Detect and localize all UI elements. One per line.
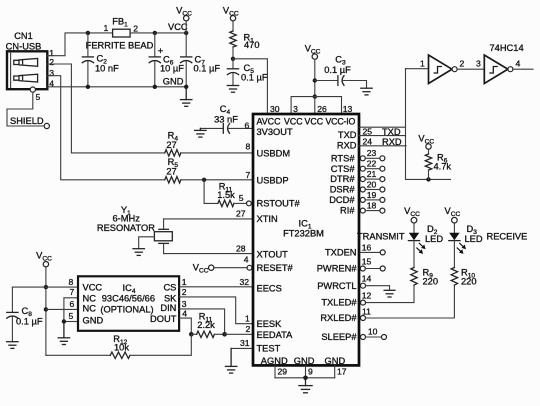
svg-text:5: 5: [239, 193, 244, 203]
svg-text:XTIN: XTIN: [257, 214, 278, 224]
svg-text:5: 5: [36, 92, 41, 102]
resistor R10 220: [451, 268, 476, 287]
svg-text:GND: GND: [294, 356, 315, 366]
bubble RESET# pin 4: [247, 265, 252, 270]
svg-text:RXD: RXD: [337, 141, 357, 151]
svg-text:7: 7: [246, 170, 251, 180]
svg-text:0.1 µF: 0.1 µF: [241, 73, 268, 83]
ground symbol below IC4 GND: [58, 322, 69, 345]
svg-text:10 µF: 10 µF: [160, 64, 184, 74]
ground symbol at TEST: [225, 348, 236, 373]
svg-text:21: 21: [367, 169, 377, 179]
eeprom IC4 93C46/56/66: [78, 276, 179, 331]
ground symbol below C8: [7, 342, 18, 349]
svg-text:4: 4: [182, 309, 187, 319]
wire to EEDATA pin 2: [225, 333, 253, 335]
svg-text:28: 28: [236, 243, 246, 253]
svg-text:FT232BM: FT232BM: [283, 229, 324, 239]
svg-text:11: 11: [362, 307, 371, 317]
svg-text:6: 6: [245, 121, 250, 131]
wire FB1 pin 2 to VCC node: [130, 32, 186, 34]
junction USBDP to R11: [202, 178, 206, 182]
capacitor C7 0.1 uF: [181, 33, 221, 87]
capacitor C5 0.1 uF: [227, 59, 267, 86]
svg-text:2: 2: [49, 57, 54, 67]
junction R1/C5/AVCC: [231, 57, 235, 61]
svg-text:10 nF: 10 nF: [95, 64, 119, 74]
svg-text:22: 22: [367, 159, 377, 169]
pin TXLED# 12: [361, 285, 415, 305]
junction GND rail at C2: [86, 85, 90, 89]
op-amp IC1 FT232BM main box: [253, 114, 359, 366]
wire GND pin 9 stub: [305, 365, 307, 377]
svg-text:NC: NC: [83, 304, 97, 314]
wire VCC to IC4 pin 6 NC: [46, 308, 78, 310]
svg-text:1: 1: [182, 277, 187, 287]
wire IC4 SK pin 2 to EESK pin 1: [179, 297, 253, 324]
svg-text:RSTOUT#: RSTOUT#: [257, 199, 301, 209]
svg-text:7: 7: [70, 287, 75, 297]
junction VCC to C3: [313, 78, 317, 82]
svg-text:SLEEP#: SLEEP#: [321, 332, 357, 342]
wire resonator to XTOUT pin 28: [164, 253, 253, 255]
junction VCC to IC4 pin 8: [44, 285, 48, 289]
wire GND rail from CN1 pin 4: [47, 86, 186, 88]
svg-text:VCC: VCC: [305, 117, 324, 127]
svg-text:1: 1: [104, 23, 109, 33]
svg-text:220: 220: [423, 276, 439, 286]
svg-text:RXLED#: RXLED#: [320, 313, 357, 323]
ground symbol below IC1: [299, 378, 312, 393]
svg-text:CS: CS: [163, 283, 176, 293]
svg-text:SK: SK: [164, 293, 177, 303]
svg-text:(OPTIONAL): (OPTIONAL): [100, 305, 153, 315]
svg-text:GND: GND: [83, 316, 104, 326]
svg-text:3V3OUT: 3V3OUT: [257, 127, 293, 137]
wire R12 rail from VCC: [46, 354, 110, 356]
wire inverter2 output: [513, 68, 533, 70]
svg-text:470: 470: [244, 40, 260, 50]
junction GND rail at C6: [153, 85, 157, 89]
resistor R4 27: [165, 131, 181, 156]
resistor R9 220: [411, 268, 438, 287]
svg-text:CN1: CN1: [14, 31, 33, 41]
connector CN1 CN-USB: [6, 31, 55, 102]
wire VCC to IC4 pin 8 VCC: [46, 286, 78, 288]
svg-text:RESET#: RESET#: [257, 263, 294, 273]
svg-text:RESONATOR: RESONATOR: [97, 223, 155, 233]
pin SLEEP# 10: [361, 327, 387, 340]
wire IC4 pin 5 GND: [64, 321, 78, 323]
wire IC4 DIN pin 3 to EEDATA junction: [179, 309, 225, 334]
junction DIN EEDATA: [222, 332, 227, 337]
svg-text:GND: GND: [325, 356, 346, 366]
svg-text:13: 13: [343, 104, 353, 114]
wire GND bracket: [275, 377, 335, 379]
svg-text:0.1 µF: 0.1 µF: [324, 65, 351, 75]
power VCC terminal for VCC/VCC-IO pins: [305, 44, 321, 97]
wire R5 to USBDP pin 7: [181, 179, 253, 181]
svg-text:EEDATA: EEDATA: [257, 330, 294, 340]
svg-text:TXD: TXD: [338, 130, 357, 140]
pin CTS# 22: [360, 159, 385, 172]
svg-text:PWRCTL: PWRCTL: [317, 281, 356, 291]
wire VCC to RESET# pin 4: [214, 267, 247, 269]
capacitor C6 10 uF: [149, 33, 184, 87]
pin PWRCTL 14: [361, 274, 390, 291]
node RXD net label: [363, 137, 402, 147]
wire inverter input: [406, 68, 429, 70]
junction IC4 GND: [62, 319, 66, 323]
power VCC terminal above LED D3: [445, 206, 461, 233]
resistor R6 4.7k: [425, 153, 451, 180]
svg-text:RI#: RI#: [340, 205, 355, 215]
junction VCC pins rail: [313, 94, 317, 98]
wire R4 to USBDM pin 8: [181, 152, 253, 154]
svg-text:10: 10: [368, 327, 378, 337]
svg-text:RTS#: RTS#: [331, 153, 355, 163]
svg-text:CN-USB: CN-USB: [6, 42, 42, 52]
svg-text:18: 18: [367, 201, 377, 211]
capacitor C3 0.1 uF: [315, 55, 367, 89]
pin DSR# 20: [360, 179, 385, 192]
wire GND pin 17 stub: [334, 365, 336, 377]
svg-text:10k: 10k: [114, 343, 129, 353]
svg-text:1: 1: [245, 313, 250, 323]
svg-text:LED: LED: [465, 234, 483, 244]
wire R1 junction to AVCC pin 30: [233, 59, 267, 114]
wire VCC rail to pins 3 26 13: [291, 97, 341, 114]
wire R12 to DOUT junction: [130, 334, 191, 355]
power VCC terminal above C7: [176, 6, 192, 33]
wire pin 26 stub: [314, 97, 316, 114]
svg-text:5: 5: [69, 311, 74, 321]
svg-text:LED: LED: [425, 234, 443, 244]
power VCC terminal at RESET#: [193, 263, 214, 275]
svg-text:DTR#: DTR#: [330, 174, 355, 184]
svg-text:16: 16: [362, 242, 372, 252]
svg-text:220: 220: [461, 276, 477, 286]
capacitor C4 33 nF on 3V3OUT pin 6: [200, 104, 253, 133]
svg-text:CTS#: CTS#: [331, 164, 356, 174]
ferrite bead FB1: [86, 17, 154, 51]
power VCC terminal above IC4: [36, 251, 52, 356]
svg-text:VCC-IO: VCC-IO: [326, 117, 356, 127]
svg-text:6: 6: [70, 299, 75, 309]
svg-text:19: 19: [367, 190, 377, 200]
pin DCD# 19: [360, 190, 385, 203]
svg-text:0.1 µF: 0.1 µF: [194, 64, 221, 74]
svg-text:2: 2: [460, 58, 465, 68]
wire R11 to RSTOUT# pin 5: [234, 202, 247, 204]
svg-text:14: 14: [362, 274, 372, 284]
junction VCC to IC4 pin 6: [44, 307, 48, 311]
svg-text:SHIELD: SHIELD: [10, 116, 44, 126]
pin TXDEN 16: [360, 242, 385, 255]
junction VCC at C7: [184, 31, 188, 35]
svg-text:FERRITE BEAD: FERRITE BEAD: [86, 40, 154, 50]
pin PWREN# 15: [360, 256, 385, 271]
wire USBDP junction down to R11: [204, 180, 218, 204]
svg-text:DCD#: DCD#: [329, 195, 355, 205]
svg-text:3: 3: [293, 104, 298, 114]
svg-text:TXD: TXD: [382, 127, 401, 137]
svg-text:17: 17: [337, 366, 347, 376]
node TXD net label: [363, 127, 401, 137]
junction GND rail at C7: [184, 85, 188, 89]
wire inverter1 out to inverter2 in: [457, 68, 484, 70]
svg-text:TRANSMIT: TRANSMIT: [357, 232, 405, 242]
svg-text:2: 2: [182, 287, 187, 297]
svg-text:8: 8: [246, 141, 251, 151]
resistor R12 10k: [110, 334, 130, 358]
svg-text:1: 1: [420, 59, 425, 69]
power VCC terminal above LED D2: [404, 206, 420, 233]
svg-text:23: 23: [367, 148, 377, 158]
svg-text:3: 3: [49, 68, 54, 78]
ground symbol at resonator: [133, 249, 144, 256]
svg-text:3: 3: [476, 59, 481, 69]
svg-text:AGND: AGND: [261, 356, 288, 366]
svg-text:74HC14: 74HC14: [490, 43, 524, 53]
svg-text:9: 9: [308, 366, 313, 376]
pin RTS# 23: [360, 148, 385, 161]
wire TEST pin 31 to ground: [231, 347, 253, 349]
resistor R1 470: [230, 31, 260, 59]
svg-text:0.1 µF: 0.1 µF: [16, 317, 43, 327]
junction R6 RXD: [426, 177, 430, 181]
svg-text:DOUT: DOUT: [150, 314, 177, 324]
op-amp U1B 74HC14 inverter 2: [484, 43, 523, 84]
svg-text:NC: NC: [83, 293, 97, 303]
svg-text:EECS: EECS: [257, 284, 282, 294]
power VCC terminal above R1: [223, 6, 239, 32]
wire vertical TXD to inverter and RXD to R6: [406, 69, 451, 180]
ground symbol at C3: [361, 88, 372, 95]
svg-text:DIN: DIN: [160, 303, 176, 313]
resistor R11 1.5k: [217, 182, 235, 207]
bubble RSTOUT# pin 5: [247, 201, 252, 206]
ground symbol at PWRCTL: [384, 290, 395, 297]
svg-text:2: 2: [133, 23, 138, 33]
node SHIELD: [10, 116, 49, 128]
svg-text:TEST: TEST: [257, 344, 281, 354]
svg-text:8: 8: [69, 277, 74, 287]
svg-text:2: 2: [246, 324, 251, 334]
svg-text:PWREN#: PWREN#: [317, 264, 358, 274]
capacitor C8 0.1 uF: [7, 287, 43, 342]
ground symbol below GND rail: [181, 87, 192, 107]
op-amp U1A 74HC14 inverter 1: [429, 55, 458, 84]
wire RXD pin 24: [359, 145, 406, 147]
svg-text:USBDP: USBDP: [257, 175, 289, 185]
svg-text:XTOUT: XTOUT: [257, 250, 289, 260]
svg-text:4: 4: [516, 58, 521, 68]
svg-text:25: 25: [363, 127, 373, 137]
svg-text:2.2k: 2.2k: [197, 320, 215, 330]
pin RXLED# 11: [361, 285, 455, 321]
svg-text:TXLED#: TXLED#: [321, 298, 357, 308]
wire USBDM from CN1 pin 2: [47, 64, 165, 153]
wire resonator to XTIN pin 27: [164, 218, 253, 220]
wire TXD flag upper line: [359, 126, 406, 128]
svg-text:VCC: VCC: [83, 283, 103, 293]
wire SHIELD from CN1 pin 5: [7, 92, 44, 126]
junction on VCC wire at C2: [86, 31, 90, 35]
svg-text:15: 15: [362, 256, 372, 266]
junction on VCC wire at C6: [153, 31, 157, 35]
LED D3 RECEIVE: [449, 224, 528, 267]
svg-text:30: 30: [270, 104, 280, 114]
wire CN1 pin 1 to FB1 pin 1: [47, 33, 112, 56]
wire IC4 CS pin 1 to EECS pin 32: [179, 286, 253, 288]
svg-text:EESK: EESK: [257, 319, 283, 329]
svg-text:1.5k: 1.5k: [217, 190, 235, 200]
svg-text:29: 29: [278, 366, 288, 376]
svg-text:24: 24: [363, 137, 373, 147]
wire AGND pin 29 stub: [274, 365, 276, 377]
ground symbol at C4: [195, 128, 206, 137]
svg-text:93C46/56/66: 93C46/56/66: [102, 294, 155, 304]
LED D2 TRANSMIT: [357, 224, 443, 267]
ground symbol below C5: [227, 86, 238, 93]
svg-text:VCC: VCC: [284, 117, 303, 127]
svg-text:32: 32: [240, 277, 250, 287]
resistor R5 27: [165, 157, 181, 183]
svg-text:DSR#: DSR#: [330, 185, 356, 195]
capacitor C2 10 nF: [82, 33, 119, 87]
svg-text:27: 27: [166, 166, 176, 176]
svg-text:4: 4: [244, 255, 249, 265]
svg-text:RECEIVE: RECEIVE: [487, 232, 528, 242]
svg-text:TXDEN: TXDEN: [325, 248, 357, 258]
wire IC4 DOUT pin 4 down: [179, 318, 191, 334]
svg-text:26: 26: [317, 104, 327, 114]
svg-text:20: 20: [367, 179, 377, 189]
wire IC4 pin 7 NC to ground leg: [64, 298, 78, 322]
junction DOUT R11 R12: [189, 332, 194, 337]
resonator Y1 6-MHz: [97, 205, 172, 254]
svg-text:27: 27: [236, 208, 246, 218]
svg-text:VCC: VCC: [168, 22, 188, 32]
svg-text:4.7k: 4.7k: [434, 162, 452, 172]
svg-text:12: 12: [362, 291, 372, 301]
pin DTR# 21: [360, 169, 385, 182]
wire USBDP from CN1 pin 3: [47, 76, 165, 180]
junction GND bracket: [303, 376, 308, 381]
svg-text:RXD: RXD: [382, 137, 402, 147]
power VCC terminal above R6: [418, 134, 434, 154]
wire TXD pin 25: [359, 135, 406, 137]
svg-text:USBDM: USBDM: [257, 148, 291, 158]
pin RI# 18: [360, 201, 385, 214]
svg-text:33 nF: 33 nF: [214, 114, 238, 124]
wire VCC to C8: [12, 286, 46, 288]
svg-text:AVCC: AVCC: [257, 117, 282, 127]
svg-text:31: 31: [240, 338, 250, 348]
resistor R11 2.2k: [191, 312, 224, 338]
svg-text:GND: GND: [163, 76, 184, 86]
